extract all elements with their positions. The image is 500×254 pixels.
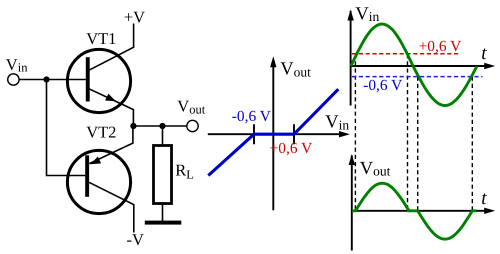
svg-text:+0,6 V: +0,6 V xyxy=(419,38,462,55)
svg-text:VT2: VT2 xyxy=(86,122,116,141)
svg-text:-0,6 V: -0,6 V xyxy=(232,108,271,125)
svg-text:VT1: VT1 xyxy=(86,29,116,48)
svg-text:-V: -V xyxy=(127,230,144,249)
svg-text:+0,6 V: +0,6 V xyxy=(270,140,313,157)
svg-text:+V: +V xyxy=(124,8,145,27)
svg-text:t: t xyxy=(481,43,487,64)
svg-text:-0,6 V: -0,6 V xyxy=(363,77,402,94)
svg-text:t: t xyxy=(481,188,487,209)
